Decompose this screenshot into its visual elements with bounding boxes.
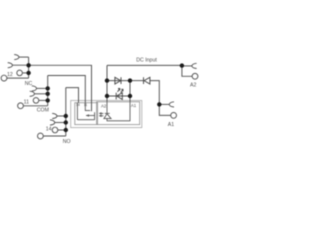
wire hook14a to node bbox=[57, 115, 66, 117]
coil LED lead top bbox=[106, 102, 108, 113]
LED D2 triangle bbox=[117, 93, 123, 100]
node 14 bus a bbox=[64, 114, 68, 118]
terminal circle 11 outer bbox=[18, 103, 24, 109]
wire A1 node to hook bbox=[159, 103, 169, 105]
wire COM long to relay pin 11 bbox=[48, 76, 86, 103]
node bridge TR bbox=[128, 78, 132, 82]
terminal circle 12 bbox=[17, 70, 23, 76]
wire circle11outer to bus bottom bbox=[23, 105, 47, 107]
terminal hook A2 bbox=[192, 63, 197, 68]
wire hook11a to node bbox=[37, 87, 48, 89]
node bridge TL bbox=[105, 78, 109, 82]
coil LED triangle bbox=[104, 114, 111, 119]
wire A2 node to hook bbox=[182, 65, 192, 67]
bus COM vertical bbox=[47, 76, 49, 106]
module box bbox=[71, 101, 142, 128]
LED D2 arrow 1 bbox=[118, 89, 120, 92]
relay pin lead 11 bbox=[85, 103, 90, 111]
node 11 bus a bbox=[46, 86, 50, 90]
wire series diode to A1 down bbox=[150, 81, 160, 105]
node 11 bus c bbox=[46, 98, 50, 102]
wire hook11b to node bbox=[35, 93, 48, 95]
coil LED arrow 1 bbox=[100, 113, 104, 115]
svg-text:A2: A2 bbox=[101, 103, 107, 108]
node 14 bus b bbox=[64, 120, 68, 124]
terminal circle A2 bbox=[192, 73, 198, 79]
LED D2 bar bbox=[115, 93, 117, 100]
node bridge BR bbox=[128, 94, 132, 98]
terminal clamp hook 14-a bbox=[52, 113, 57, 118]
wire circle11 to node bbox=[39, 99, 48, 101]
wire NO jog to relay pin 14 bbox=[66, 88, 79, 103]
terminal circle 14 outer bbox=[38, 133, 44, 139]
terminal clamp hook 11-a bbox=[32, 86, 37, 91]
terminal clamp hook 12-b bbox=[8, 63, 13, 68]
svg-text:A2: A2 bbox=[190, 82, 196, 88]
coil LED bar bbox=[105, 112, 110, 114]
terminal circle 14 bbox=[52, 127, 58, 133]
LED D2 row wire bbox=[107, 95, 130, 97]
wire circle14 to node bbox=[58, 129, 66, 131]
bus NO vertical bbox=[65, 88, 67, 136]
terminal clamp hook 11-b bbox=[30, 91, 35, 96]
relay contact arrowhead bbox=[86, 114, 89, 117]
diode D1 triangle bbox=[115, 77, 121, 84]
diode D1 top row wire bbox=[107, 80, 130, 82]
node 11 bus b bbox=[46, 92, 50, 96]
node 12 bus a bbox=[26, 63, 30, 67]
terminal circle A1 bbox=[171, 113, 177, 119]
wire DC input A2 bbox=[107, 64, 182, 66]
wire A1 node to circle bbox=[159, 104, 170, 115]
wire circle14outer to bus bottom bbox=[43, 135, 66, 137]
bus NC vertical bbox=[28, 57, 30, 78]
terminal clamp hook 12-a bbox=[14, 55, 19, 60]
svg-text:12: 12 bbox=[7, 72, 13, 78]
coil LED lead bottom and conductor bbox=[107, 102, 130, 121]
wire TR node to series diode bbox=[130, 80, 143, 82]
wire A2 node to circle bbox=[182, 65, 192, 76]
diode D3 bar bbox=[143, 77, 145, 84]
svg-text:14: 14 bbox=[46, 127, 52, 133]
relay box bbox=[75, 103, 98, 125]
svg-text:11: 11 bbox=[24, 99, 29, 105]
diode D1 bar bbox=[120, 77, 122, 84]
terminal hook A1 bbox=[169, 102, 174, 107]
LED D2 arrow 2 bbox=[121, 89, 123, 92]
wire hook12b to node bbox=[13, 64, 29, 66]
svg-text:NO: NO bbox=[63, 139, 71, 145]
node A2 bbox=[180, 63, 184, 67]
svg-text:A1: A1 bbox=[168, 122, 174, 128]
svg-text:14: 14 bbox=[76, 103, 80, 107]
wire circle12outer to bus bottom bbox=[7, 77, 29, 79]
wire A2 down to bridge left column bbox=[106, 65, 108, 101]
relay pin lead 14 bbox=[76, 103, 78, 120]
relay bottom link bbox=[77, 112, 94, 120]
terminal circle 12 outer bbox=[1, 75, 7, 81]
svg-text:11: 11 bbox=[84, 103, 88, 107]
diode D3 series triangle bbox=[144, 77, 150, 84]
svg-text:DC Input: DC Input bbox=[136, 58, 157, 64]
terminal clamp hook 14-b bbox=[50, 120, 55, 125]
node A1 bbox=[157, 102, 161, 106]
node bridge BL bbox=[105, 94, 109, 98]
wire circle12 to node bbox=[22, 72, 28, 74]
node 12 bus b bbox=[26, 71, 30, 75]
bridge right column bbox=[129, 81, 131, 102]
svg-text:NC: NC bbox=[25, 81, 33, 87]
svg-text:A1: A1 bbox=[131, 103, 137, 108]
coil LED arrow 2 bbox=[100, 115, 104, 117]
svg-text:COM: COM bbox=[37, 108, 49, 114]
node 14 bus c bbox=[64, 128, 68, 132]
wire NC long to relay pin 12 bbox=[29, 65, 92, 111]
wire hook12a to bus bbox=[19, 56, 29, 58]
terminal circle 11 bbox=[33, 98, 39, 104]
coil box bbox=[97, 102, 140, 125]
relay contact arm bbox=[86, 115, 95, 117]
wire hook14b to node bbox=[55, 122, 66, 124]
